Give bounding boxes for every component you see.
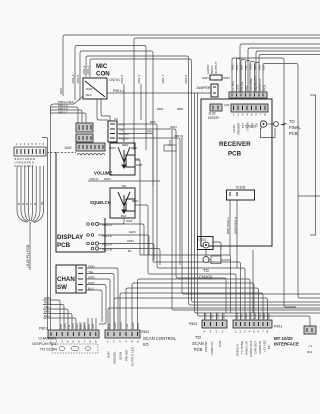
svg-text:GND(+Y): GND(+Y) (236, 344, 240, 356)
svg-text:W: W (40, 202, 44, 205)
svg-text:WHT: WHT (244, 312, 248, 319)
svg-text:P802-B: P802-B (102, 248, 112, 252)
svg-text:BLU: BLU (87, 324, 91, 329)
svg-text:YEL: YEL (135, 157, 141, 161)
svg-text:BLK: BLK (121, 214, 127, 218)
svg-text:GRN: GRN (44, 296, 51, 300)
svg-text:P803: P803 (189, 322, 197, 326)
svg-text:BLK: BLK (59, 324, 63, 329)
svg-text:GRN: GRN (131, 322, 135, 329)
svg-text:GRN: GRN (88, 265, 95, 269)
svg-text:ADD/SEL: ADD/SEL (113, 351, 117, 364)
svg-text:RECEIVER: RECEIVER (219, 141, 251, 148)
svg-text:RED: RED (122, 143, 129, 147)
svg-text:GRN: GRN (104, 177, 111, 181)
svg-text:OUTPUT: OUTPUT (214, 62, 218, 75)
svg-text:PRI SW: PRI SW (125, 350, 129, 361)
svg-text:RED: RED (131, 146, 138, 150)
svg-text:ORN: ORN (249, 64, 253, 70)
svg-text:RED: RED (157, 107, 164, 111)
svg-text:PCB: PCB (228, 151, 242, 158)
svg-text:SQ: SQ (119, 128, 124, 132)
svg-text:YEL: YEL (240, 313, 244, 319)
svg-text:YEL: YEL (121, 184, 127, 188)
svg-text:BRN: BRN (44, 310, 50, 314)
svg-text:PCB: PCB (289, 131, 298, 136)
svg-text:J101-7: J101-7 (161, 74, 165, 84)
svg-text:TO: TO (289, 119, 295, 124)
svg-text:J 1: J 1 (308, 344, 312, 348)
svg-text:P803-4: P803-4 (102, 243, 112, 247)
svg-text:B G O Y G B R W: B G O Y G B R W (15, 157, 36, 161)
svg-text:GRN: GRN (253, 312, 257, 319)
svg-text:GRN: GRN (202, 76, 209, 80)
svg-text:D11: D11 (307, 350, 313, 354)
svg-text:MT 10/20: MT 10/20 (274, 336, 293, 341)
svg-text:BLK: BLK (262, 65, 266, 70)
svg-text:BLK: BLK (150, 120, 156, 124)
svg-text:HANG-UP: HANG-UP (245, 341, 249, 355)
svg-text:CN102: CN102 (199, 238, 208, 242)
svg-text:CN101: CN101 (245, 125, 256, 129)
svg-text:RED: RED (258, 312, 262, 319)
svg-text:BLU: BLU (235, 65, 239, 70)
svg-text:MIC: MIC (96, 63, 108, 70)
svg-text:GRN: GRN (253, 64, 257, 70)
svg-text:+13 VDC: +13 VDC (263, 339, 267, 352)
svg-text:CN202: CN202 (199, 275, 213, 280)
svg-text:BL: BL (128, 249, 132, 253)
svg-text:JUMPER: JUMPER (196, 86, 211, 90)
svg-text:DISPLAY/SEL: DISPLAY/SEL (32, 341, 57, 346)
svg-text:CAR DET: CAR DET (254, 341, 258, 354)
svg-text:GRN: GRN (113, 322, 117, 329)
svg-text:FINAL: FINAL (289, 125, 302, 130)
svg-text:L R R E R R E H: L R R E R R E H (15, 161, 34, 165)
svg-text:ORN: ORN (109, 146, 116, 150)
svg-text:BLU: BLU (88, 287, 94, 291)
svg-text:J101-4: J101-4 (71, 74, 75, 84)
svg-text:PCB: PCB (194, 347, 203, 352)
svg-text:BLK: BLK (107, 323, 111, 329)
svg-text:SCAN CONTROL: SCAN CONTROL (143, 336, 177, 341)
svg-text:TO SCAN: TO SCAN (40, 347, 57, 352)
svg-text:J101-3: J101-3 (137, 74, 141, 84)
svg-text:J101-1: J101-1 (86, 65, 90, 75)
svg-text:GRN: GRN (216, 312, 220, 319)
svg-text:TONE CH: TONE CH (210, 342, 214, 355)
svg-text:IC103: IC103 (236, 186, 245, 190)
svg-text:BLK: BLK (267, 313, 271, 319)
svg-text:RED: RED (75, 323, 79, 329)
svg-text:BRN: BRN (132, 199, 138, 203)
svg-text:CHANNEL: CHANNEL (38, 336, 57, 341)
svg-text:SPEAKER: SPEAKER (237, 123, 241, 135)
svg-text:P801-7: P801-7 (58, 111, 68, 115)
svg-text:J101: J101 (224, 103, 230, 107)
svg-text:GRN: GRN (63, 323, 67, 329)
svg-text:WHT: WHT (86, 87, 93, 91)
svg-text:DISPLAY: DISPLAY (57, 234, 84, 241)
svg-text:ORN: ORN (88, 276, 95, 280)
svg-text:ORN P901-9: ORN P901-9 (234, 216, 238, 234)
svg-text:(J102 PL) PCB: (J102 PL) PCB (26, 244, 30, 268)
svg-text:RED: RED (231, 64, 235, 70)
svg-text:ORN: ORN (146, 130, 153, 134)
svg-text:J101-8: J101-8 (184, 74, 188, 84)
svg-text:AUDIO OUT: AUDIO OUT (249, 340, 253, 357)
svg-text:CAR: CAR (218, 340, 222, 347)
svg-text:P802-4: P802-4 (102, 223, 112, 227)
svg-text:BRN: BRN (262, 313, 266, 319)
svg-text:GND: GND (107, 351, 111, 359)
svg-text:GRY: GRY (59, 88, 63, 94)
svg-text:P802: P802 (141, 330, 149, 334)
svg-text:J402: J402 (64, 146, 72, 150)
svg-text:DISPLAY: DISPLAY (258, 79, 262, 91)
svg-text:P802-6: P802-6 (102, 234, 112, 238)
svg-text:WHT: WHT (83, 323, 87, 329)
svg-text:GRN: GRN (170, 125, 177, 129)
svg-text:P901-2: P901-2 (113, 89, 124, 93)
svg-text:ORN: ORN (204, 312, 208, 319)
svg-text:INTERFACE: INTERFACE (274, 342, 299, 347)
svg-text:K N N L N N D T: K N N L N N D T (15, 164, 34, 168)
svg-text:CN701: CN701 (109, 78, 120, 82)
svg-text:VOL: VOL (245, 85, 249, 91)
svg-text:J101-5: J101-5 (76, 74, 80, 84)
svg-text:VOLUME: VOLUME (249, 78, 253, 91)
svg-text:BRN: BRN (258, 64, 262, 70)
svg-text:GRY: GRY (240, 64, 244, 70)
svg-text:WHT: WHT (126, 219, 133, 223)
svg-text:J101-6: J101-6 (89, 177, 99, 181)
svg-text:BLU: BLU (222, 313, 226, 319)
svg-text:AUDIO IN: AUDIO IN (258, 341, 262, 354)
svg-text:+13.8V: +13.8V (232, 124, 236, 133)
svg-text:J101: J101 (236, 84, 240, 91)
svg-text:YEL: YEL (44, 305, 50, 309)
svg-text:ORN: ORN (174, 134, 181, 138)
svg-text:CHAN: CHAN (57, 276, 75, 283)
svg-text:SW: SW (57, 284, 67, 291)
svg-text:OUTPUT LED: OUTPUT LED (131, 346, 135, 366)
svg-text:P901: P901 (274, 325, 282, 329)
svg-text:WHT: WHT (136, 163, 143, 167)
svg-text:YEL: YEL (125, 323, 129, 329)
svg-text:BRN P803-1: BRN P803-1 (226, 217, 230, 234)
svg-text:PCB: PCB (263, 85, 267, 91)
svg-text:ORN: ORN (71, 323, 75, 329)
svg-text:(-L TO): (-L TO) (231, 82, 235, 91)
svg-text:PW SW: PW SW (204, 341, 208, 352)
svg-text:C4: C4 (114, 117, 118, 121)
svg-text:DISCR: DISCR (208, 116, 219, 120)
svg-text:TO: TO (203, 268, 209, 273)
svg-text:YEL: YEL (88, 270, 94, 274)
svg-text:ORN: ORN (119, 322, 123, 329)
svg-text:RED: RED (177, 107, 184, 111)
svg-text:SCAN: SCAN (119, 352, 123, 360)
svg-text:J102: J102 (208, 112, 216, 116)
svg-text:PCB: PCB (57, 242, 71, 249)
svg-text:YEL: YEL (67, 324, 71, 329)
svg-text:GRY: GRY (91, 323, 95, 329)
svg-text:ORN: ORN (127, 239, 134, 243)
svg-text:BRN: BRN (136, 323, 140, 329)
svg-text:SQUELCH: SQUELCH (254, 76, 258, 91)
svg-text:CN701: CN701 (240, 81, 244, 91)
svg-text:VOLUME: VOLUME (94, 171, 113, 176)
svg-text:ORN: ORN (249, 312, 253, 319)
svg-text:WHT: WHT (210, 312, 214, 319)
svg-text:YEL: YEL (244, 65, 248, 70)
svg-text:VOL: VOL (119, 123, 125, 127)
svg-text:J101-6: J101-6 (120, 74, 124, 84)
svg-text:RED: RED (44, 301, 51, 305)
svg-text:SQUELCH: SQUELCH (90, 200, 111, 205)
svg-text:CON: CON (96, 71, 110, 78)
svg-text:BLU: BLU (44, 314, 50, 318)
svg-text:ORN: ORN (223, 76, 230, 80)
svg-text:SCAN: SCAN (192, 341, 204, 346)
svg-text:GRN: GRN (129, 230, 136, 234)
svg-text:BLU: BLU (235, 313, 239, 319)
svg-text:P801: P801 (39, 327, 47, 331)
svg-text:BLK: BLK (86, 93, 92, 97)
svg-text:TO: TO (195, 335, 201, 340)
svg-text:I/O: I/O (143, 342, 149, 347)
svg-text:BRN: BRN (79, 323, 83, 329)
svg-text:TX TONE: TX TONE (240, 341, 244, 354)
svg-text:WHT: WHT (88, 281, 95, 285)
